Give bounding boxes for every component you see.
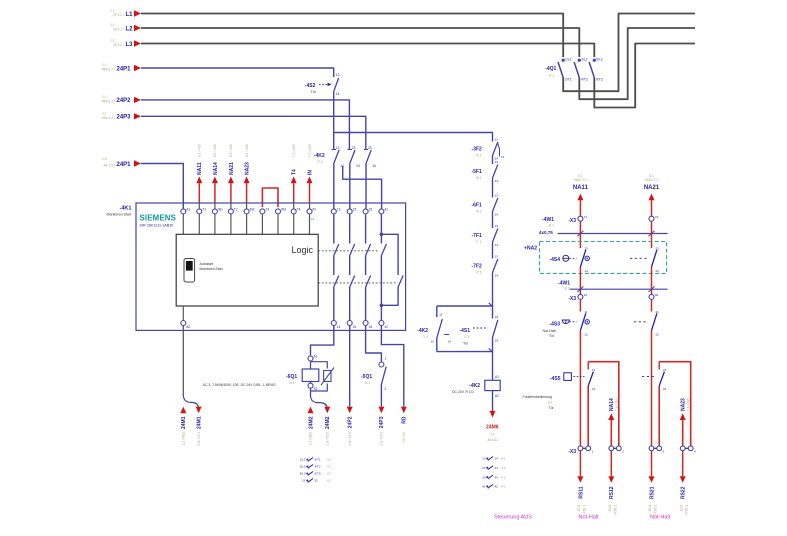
svg-text:-6F1: -6F1 <box>472 203 483 209</box>
bypass 41 channel <box>381 234 398 275</box>
svg-text:13: 13 <box>495 160 499 164</box>
svg-text:/4.2: /4.2 <box>501 466 506 470</box>
svg-text:Steuerung AUS: Steuerung AUS <box>494 515 532 521</box>
autostart switch widget <box>184 259 195 283</box>
terminal -X3:91 <box>578 294 583 299</box>
svg-text:Tür: Tür <box>549 334 555 338</box>
svg-text:Monitored Start: Monitored Start <box>107 213 132 217</box>
svg-text:24: 24 <box>356 164 360 168</box>
svg-text:-X3: -X3 <box>568 449 576 455</box>
svg-text:7.2 /-4S5: 7.2 /-4S5 <box>308 144 312 157</box>
svg-text:7.8 /-X2: 7.8 /-X2 <box>402 432 406 443</box>
svg-text:14: 14 <box>495 179 499 183</box>
contact -3F2 aux stub <box>498 144 500 157</box>
terminal -4K1:14 <box>331 321 336 326</box>
svg-text:12.8: 12.8 <box>577 505 581 511</box>
arrow NA21 <box>649 194 655 201</box>
arrow 24P3 <box>134 113 141 119</box>
svg-text:T3: T3 <box>265 207 269 211</box>
link -4S4 dashed <box>630 257 648 259</box>
arrow RS11 <box>579 451 581 477</box>
svg-text:24M2: 24M2 <box>308 416 314 429</box>
contactor coil -6Q1 <box>308 356 313 361</box>
svg-text:RS21: RS21 <box>649 486 655 499</box>
svg-text:-464:2.2 /: -464:2.2 / <box>101 99 115 103</box>
svg-text:21: 21 <box>656 310 660 314</box>
relay -4K1 outer box <box>136 203 406 330</box>
svg-text:71: 71 <box>584 215 588 219</box>
switch -4Q1 pole 3 <box>593 59 596 62</box>
wire -6Q1 A2 jog <box>311 396 328 408</box>
svg-text:A2: A2 <box>495 394 499 398</box>
contact -7F1 <box>493 229 498 243</box>
wire 24P2 <box>141 100 349 150</box>
svg-text:SIR 3SK1111-1AB30: SIR 3SK1111-1AB30 <box>140 224 174 228</box>
terminal -4K1:13 <box>331 209 336 214</box>
door contact -4S1 <box>492 306 494 319</box>
wire stub <box>246 214 248 234</box>
arrow L2 <box>134 25 141 31</box>
terminal -4K1:A1 <box>181 209 186 214</box>
svg-text:33: 33 <box>482 475 486 479</box>
svg-text:/4.1: /4.1 <box>327 465 332 469</box>
svg-text:Tür: Tür <box>463 342 469 346</box>
wire segment to -5F1 <box>492 156 494 165</box>
svg-text:RS12: RS12 <box>609 486 615 499</box>
svg-text:14: 14 <box>495 243 499 247</box>
relay output channel 3 <box>365 214 367 244</box>
arrow NA11 <box>577 194 583 201</box>
wire NA11 seg3 <box>579 267 581 294</box>
svg-text:-4W1: -4W1 <box>542 217 554 223</box>
svg-text:-2F1:2 /: -2F1:2 / <box>112 13 124 17</box>
svg-text:Autostart: Autostart <box>200 262 214 266</box>
cable -4W1 lower <box>570 288 668 290</box>
svg-text:+NA2: +NA2 <box>524 245 537 251</box>
svg-text:11: 11 <box>592 368 595 372</box>
link -4S5 dashed <box>642 376 655 378</box>
arrow RS21 <box>651 451 653 477</box>
svg-text:4x0,75: 4x0,75 <box>539 230 553 235</box>
branch -4S5 right <box>658 386 660 446</box>
wire NA11 seg5 <box>579 331 581 446</box>
arrow 24P2 <box>134 97 141 103</box>
svg-text:24: 24 <box>495 339 499 343</box>
svg-text:11: 11 <box>584 310 587 314</box>
svg-text:RS22: RS22 <box>681 486 687 499</box>
svg-text:/7.4: /7.4 <box>317 160 323 164</box>
wire NA21 seg4 <box>651 299 653 311</box>
svg-text:/7.1: /7.1 <box>476 240 482 244</box>
svg-text:/6.1: /6.1 <box>476 210 482 214</box>
svg-text:+NA1-T2 /: +NA1-T2 / <box>573 178 588 182</box>
svg-text:22: 22 <box>656 332 660 336</box>
svg-text:/7.1: /7.1 <box>476 271 482 275</box>
svg-text:Not-Halt: Not-Halt <box>650 515 671 521</box>
svg-text:8.4 /-4S5: 8.4 /-4S5 <box>245 144 249 157</box>
wire stub <box>277 214 279 234</box>
svg-text:T2: T2 <box>234 207 238 211</box>
svg-text:14: 14 <box>495 457 499 461</box>
svg-text:42: 42 <box>384 325 388 329</box>
svg-text:A1: A1 <box>495 375 499 379</box>
terminal -4K1:T3 <box>260 209 265 214</box>
svg-text:91: 91 <box>584 293 588 297</box>
svg-text:3/L2: 3/L2 <box>300 465 306 469</box>
svg-text:T4: T4 <box>292 169 298 175</box>
arrow 24M1 up <box>180 407 186 414</box>
contact -4S3:21-22 <box>652 313 657 330</box>
svg-text:Funkfernbedienung: Funkfernbedienung <box>523 395 552 399</box>
svg-text:T1: T1 <box>202 207 206 211</box>
wire chain bottom <box>492 273 494 307</box>
arrow 24P1 <box>134 65 141 71</box>
wire L3 in <box>141 44 594 58</box>
terminal -X3:72 <box>649 216 654 221</box>
arrow 24P2 down <box>347 407 353 414</box>
terminal -X3:71 <box>578 216 583 221</box>
svg-text:13: 13 <box>495 194 499 198</box>
svg-text:14: 14 <box>337 325 341 329</box>
svg-text:42: 42 <box>495 485 499 489</box>
svg-text:8.1: 8.1 <box>548 401 553 405</box>
link -4S3 dashed <box>634 321 648 323</box>
arrow 24M6 down <box>490 411 496 418</box>
wire A2 jog <box>183 396 198 409</box>
svg-text:L2: L2 <box>126 26 134 32</box>
wire 24P3 <box>141 116 366 149</box>
terminal -X3:92 <box>649 294 654 299</box>
svg-text:DC 24V, R CO: DC 24V, R CO <box>452 390 474 394</box>
svg-text:24P3: 24P3 <box>117 115 132 121</box>
wire 42 down <box>381 326 403 407</box>
wire NA11 seg4 <box>579 299 581 311</box>
arrow RS22 <box>682 451 684 477</box>
svg-text:-5Q1: -5Q1 <box>361 374 372 380</box>
svg-text:-4K1: -4K1 <box>120 206 132 212</box>
terminal -4K1:34 <box>363 321 368 326</box>
svg-text:+NA1-T2 /: +NA1-T2 / <box>644 178 659 182</box>
svg-text:NA11: NA11 <box>573 185 589 191</box>
wire stub <box>214 214 216 234</box>
arrow 24M1 down <box>196 407 202 414</box>
svg-text:8.3 /-4S5: 8.3 /-4S5 <box>229 144 233 157</box>
svg-text:-6Q1: -6Q1 <box>286 374 297 380</box>
svg-text:1.8 /-X1:3: 1.8 /-X1:3 <box>380 432 384 446</box>
svg-text:14: 14 <box>495 213 499 217</box>
dashed control row 2 <box>318 282 395 284</box>
wire stub <box>198 214 200 234</box>
svg-text:23: 23 <box>482 466 486 470</box>
svg-text:2.8 /-X1:4: 2.8 /-X1:4 <box>197 432 201 446</box>
svg-text:8.1 /-4S5: 8.1 /-4S5 <box>198 144 202 157</box>
svg-text:23: 23 <box>495 315 499 319</box>
key switch -4S4 actuator <box>563 255 569 261</box>
svg-text:-4K2: -4K2 <box>417 328 428 334</box>
svg-text:13: 13 <box>495 224 499 228</box>
contact -7F2 <box>493 259 498 273</box>
svg-text:6/T3: 6/T3 <box>315 472 321 476</box>
wire L3 out <box>594 44 695 108</box>
wire to coil <box>492 352 494 381</box>
terminal -4K1:IN1 <box>212 209 217 214</box>
contact -4S4:23-24 <box>652 250 657 267</box>
wire segment to -7F2 <box>492 242 494 259</box>
svg-text:Not-Halt: Not-Halt <box>579 515 600 521</box>
svg-text:13: 13 <box>336 73 340 77</box>
svg-text:41: 41 <box>384 207 388 211</box>
svg-text:24M2: 24M2 <box>325 416 331 429</box>
svg-text:-4S5: -4S5 <box>550 376 561 382</box>
arrow L3 <box>134 40 141 46</box>
signal arrow NA23 <box>682 420 684 446</box>
svg-text:13: 13 <box>336 146 340 150</box>
svg-text:13: 13 <box>482 457 486 461</box>
svg-text:1/L1: 1/L1 <box>565 58 572 62</box>
wire L2 in <box>141 28 579 57</box>
wire A2 down <box>182 326 184 397</box>
svg-text:2.4: 2.4 <box>490 433 495 437</box>
svg-text:A2: A2 <box>186 325 190 329</box>
svg-text:23: 23 <box>352 146 356 150</box>
svg-text:-4S3: -4S3 <box>549 322 560 328</box>
svg-text:-2F1:2 /: -2F1:2 / <box>112 28 124 32</box>
svg-text:/7.4: /7.4 <box>464 335 470 339</box>
svg-text:14: 14 <box>336 92 340 96</box>
svg-text:92: 92 <box>655 293 659 297</box>
relay channel 41-42 <box>380 214 382 244</box>
svg-text:2.8 /-X1:6: 2.8 /-X1:6 <box>326 432 330 446</box>
svg-text:12.8: 12.8 <box>648 505 652 511</box>
svg-text:-464:2.2 /: -464:2.2 / <box>101 68 115 72</box>
jumper T3-IN3 <box>262 188 278 207</box>
svg-text:/4.2: /4.2 <box>501 485 506 489</box>
wire coil down <box>492 391 494 411</box>
svg-text:/4.2: /4.2 <box>501 475 506 479</box>
e-stop -4S3 actuator <box>562 320 569 324</box>
svg-text:1.8 /-X1:2: 1.8 /-X1:2 <box>348 432 352 446</box>
svg-text:A1: A1 <box>186 207 190 211</box>
terminal -4K1:T1 <box>197 209 202 214</box>
contact -4S5:21-22 <box>659 372 664 386</box>
svg-text:-X3: -X3 <box>568 296 576 302</box>
svg-text:5/L3: 5/L3 <box>596 58 603 62</box>
svg-text:24P1: 24P1 <box>117 66 132 72</box>
wire A2 internal <box>182 306 184 321</box>
svg-text:2/T1: 2/T1 <box>565 78 572 82</box>
svg-text:12.8: 12.8 <box>679 505 683 511</box>
svg-text:12: 12 <box>501 155 505 159</box>
svg-text:7.1 /-4S5: 7.1 /-4S5 <box>615 398 619 411</box>
svg-text:IN3: IN3 <box>281 207 286 211</box>
svg-text:2.2 /-6Q1: 2.2 /-6Q1 <box>182 432 186 446</box>
svg-text:22: 22 <box>315 479 319 483</box>
svg-text:13: 13 <box>337 207 341 211</box>
logic box <box>176 234 318 306</box>
wire stub <box>309 214 311 234</box>
svg-text:L3: L3 <box>126 42 134 48</box>
arrow L1 <box>134 10 141 16</box>
svg-text:34: 34 <box>372 164 376 168</box>
relay output channel 2 <box>349 214 351 244</box>
wire segment to -3F2 <box>492 140 494 143</box>
svg-text:/4.1: /4.1 <box>327 458 332 462</box>
svg-text:1/L1: 1/L1 <box>300 458 306 462</box>
svg-text:/4.1: /4.1 <box>289 381 295 385</box>
svg-text:-3F2: -3F2 <box>472 147 483 153</box>
wire 24P1 <box>141 68 334 77</box>
wire A1 feed 24P1 <box>141 164 183 209</box>
relay output channel 1 <box>333 214 335 244</box>
wire 24P1 to -4K2 contacts <box>333 92 335 150</box>
svg-text:2.2 /-6Q1: 2.2 /-6Q1 <box>309 432 313 446</box>
wire L1 in <box>141 14 563 58</box>
svg-text:/5.1: /5.1 <box>476 176 482 180</box>
svg-text:34: 34 <box>369 325 373 329</box>
terminal pair -X3:2 <box>611 447 619 449</box>
wire L1 out <box>563 14 695 92</box>
wire stub <box>230 214 232 234</box>
svg-text:24M6: 24M6 <box>486 425 499 431</box>
svg-text:NA11: NA11 <box>197 162 203 175</box>
arrow 24P3 down <box>378 407 384 414</box>
arrow RD down <box>401 407 407 414</box>
svg-text:8.2 /-4S5: 8.2 /-4S5 <box>213 144 217 157</box>
wire NA11 seg2 <box>579 221 581 248</box>
svg-text:Monitored Start: Monitored Start <box>200 267 223 271</box>
svg-text:/4.1: /4.1 <box>549 74 555 78</box>
svg-text:-7F1: -7F1 <box>472 233 483 239</box>
svg-text:33: 33 <box>368 146 372 150</box>
contact -4S4:13-14 <box>580 250 585 267</box>
svg-text:14: 14 <box>495 274 499 278</box>
svg-text:-X3: -X3 <box>568 218 576 224</box>
terminal -4K1:A2 <box>181 321 186 326</box>
wire to terminal 41 <box>343 166 382 209</box>
svg-text:7.1 /-4S5: 7.1 /-4S5 <box>687 398 691 411</box>
svg-text:5/L3: 5/L3 <box>300 472 306 476</box>
svg-text:AC-3, 7,5KW/400V, 10E, DC 24V: AC-3, 7,5KW/400V, 10E, DC 24V 0,85...1,8… <box>203 383 277 387</box>
enclosure +NA2 <box>540 242 667 274</box>
svg-text:Tür: Tür <box>311 90 317 94</box>
wire 34 to -5Q1 <box>366 326 382 363</box>
terminal -4K1:T4 <box>291 209 296 214</box>
svg-text:/-X30:1: /-X30:1 <box>685 505 689 516</box>
svg-text:/4.1: /4.1 <box>327 479 332 483</box>
svg-text:-2F1:2 /: -2F1:2 / <box>112 43 124 47</box>
svg-text:NA21: NA21 <box>229 162 235 175</box>
svg-text:21: 21 <box>302 479 306 483</box>
terminal -4K1:24 <box>347 321 352 326</box>
svg-text:2: 2 <box>385 387 387 391</box>
svg-text:24P2: 24P2 <box>117 98 132 104</box>
svg-text:24: 24 <box>311 217 315 221</box>
contact -3F2 <box>493 142 498 156</box>
terminal -4K1:IN3 <box>276 209 281 214</box>
svg-text:IN2: IN2 <box>250 207 255 211</box>
svg-text:NA14: NA14 <box>213 162 219 175</box>
wire 14 to -6Q1 <box>311 326 334 357</box>
svg-text:/7.4: /7.4 <box>422 335 428 339</box>
svg-text:-4K2: -4K2 <box>314 153 325 159</box>
terminal pair -X3:4 <box>683 447 691 449</box>
wire 24 down <box>349 326 351 407</box>
contact -5F1 <box>493 165 498 179</box>
branch -4S5 left <box>587 386 589 446</box>
svg-text:Tür: Tür <box>549 406 555 410</box>
svg-text:14: 14 <box>584 269 588 273</box>
svg-text:1.5: 1.5 <box>102 157 107 161</box>
svg-text:24M1: 24M1 <box>181 416 187 429</box>
svg-text:-4K2: -4K2 <box>469 383 480 389</box>
svg-text:24: 24 <box>495 466 499 470</box>
svg-text:RS11: RS11 <box>578 486 584 498</box>
svg-text:T4: T4 <box>297 207 301 211</box>
svg-text:2/T1: 2/T1 <box>315 458 321 462</box>
svg-text:L1: L1 <box>126 12 134 18</box>
svg-text:NA21: NA21 <box>644 185 660 191</box>
svg-text:/5.1: /5.1 <box>365 381 371 385</box>
svg-text:34: 34 <box>495 475 499 479</box>
svg-text:23: 23 <box>656 246 660 250</box>
svg-text:23: 23 <box>353 207 357 211</box>
wire segment to -7F1 <box>492 212 494 229</box>
arrow 24P1 lower <box>134 160 141 166</box>
wire NA21 seg2 <box>651 221 653 248</box>
arrow RS12 <box>610 451 612 477</box>
wire NA11 upper <box>579 200 581 216</box>
svg-text:8.1: 8.1 <box>578 174 583 178</box>
terminal pair -X3:1 <box>580 447 588 449</box>
svg-text:12: 12 <box>584 332 588 336</box>
wire stub <box>261 214 263 234</box>
svg-text:Not-Halt: Not-Halt <box>543 329 556 333</box>
svg-text:IN: IN <box>307 170 313 175</box>
svg-text:/4.1: /4.1 <box>327 472 332 476</box>
wire segment to -6F1 <box>492 178 494 198</box>
switch -4Q1 pole 2 <box>578 59 581 62</box>
svg-text:33: 33 <box>369 207 373 211</box>
wire NA21 upper <box>651 200 653 216</box>
svg-text:-5F1: -5F1 <box>472 169 483 175</box>
svg-text:13: 13 <box>495 255 499 259</box>
svg-text:RD: RD <box>402 416 408 424</box>
svg-text:6/T3: 6/T3 <box>596 78 603 82</box>
wire 24P1 branch to chain <box>334 133 493 142</box>
svg-text:/5.1: /5.1 <box>476 154 482 158</box>
svg-text:NA23: NA23 <box>245 162 251 175</box>
terminal pair -X3:3 <box>652 447 660 449</box>
wire branch top <box>437 305 493 307</box>
wire L2 out <box>579 28 695 99</box>
terminal -4K1:IN2 <box>244 209 249 214</box>
dashed control row 1 <box>318 250 378 252</box>
wire stub <box>182 214 184 234</box>
svg-text:-4S2: -4S2 <box>305 83 316 89</box>
svg-text:12: 12 <box>431 340 435 344</box>
svg-text:41: 41 <box>482 485 486 489</box>
terminal -4K1:T2 <box>228 209 233 214</box>
svg-text:7.2 /-4S5: 7.2 /-4S5 <box>292 144 296 157</box>
svg-text:12.8: 12.8 <box>608 505 612 511</box>
wire stub <box>293 214 295 234</box>
contact -4S3:11-12 <box>580 313 585 330</box>
svg-text:A2: A2 <box>314 387 318 391</box>
svg-text:-4S4: -4S4 <box>549 257 560 263</box>
breaker -5Q1 <box>379 362 384 367</box>
cable -4W1 upper <box>558 233 668 235</box>
svg-text:24M1: 24M1 <box>196 416 202 429</box>
